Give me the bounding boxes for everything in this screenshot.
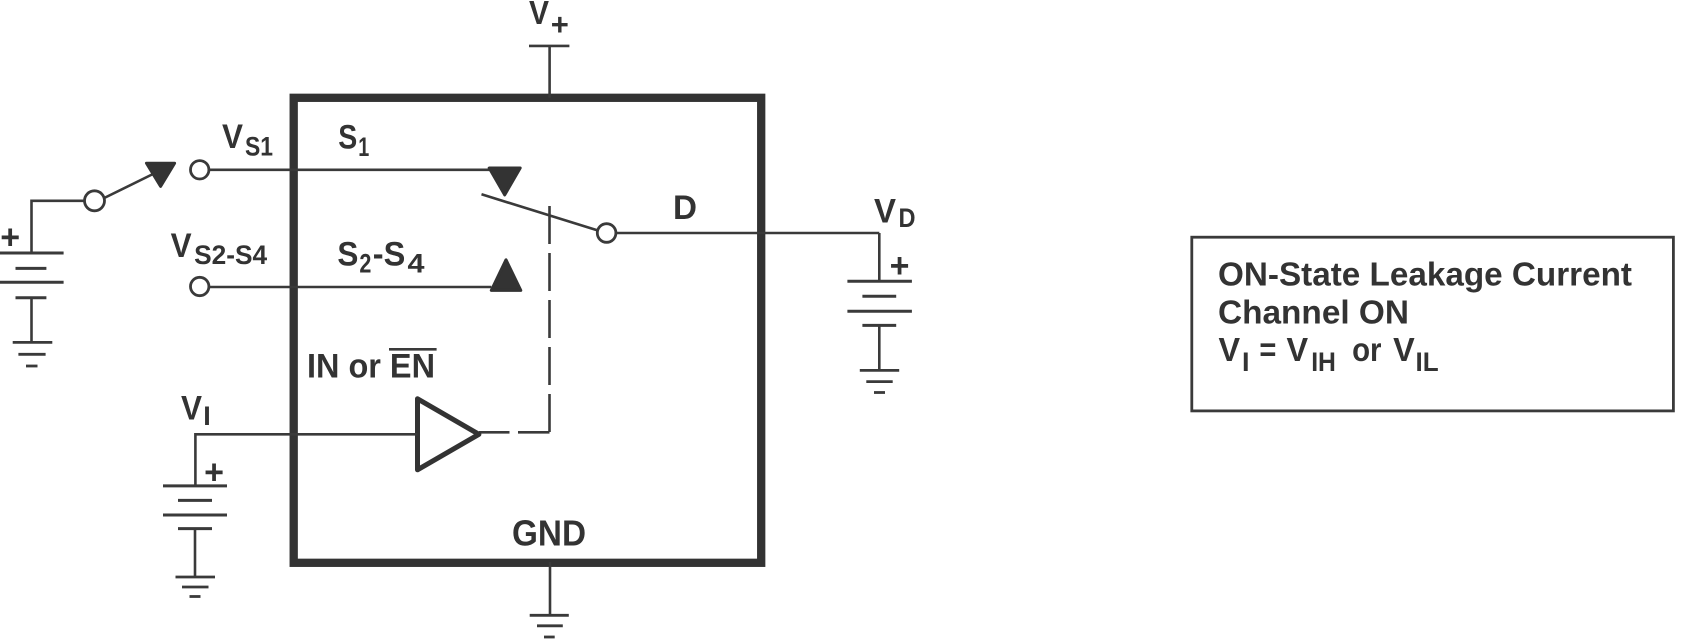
svg-text:S2-S4: S2-S4 [194, 240, 267, 270]
svg-text:V: V [1287, 331, 1309, 368]
label D [673, 189, 697, 227]
label VI [181, 389, 211, 431]
driver buffer [418, 399, 479, 470]
svg-text:GND: GND [512, 513, 586, 554]
ground GND [530, 615, 569, 637]
svg-text:+: + [551, 7, 569, 42]
wire GND to ground [549, 562, 552, 615]
svg-text:or: or [1352, 331, 1382, 368]
label IN or EN [307, 348, 437, 386]
source switch arrowhead [147, 163, 175, 186]
dashed control line horizontal [479, 431, 550, 434]
switch pole circle D [597, 224, 616, 243]
svg-text:V: V [181, 389, 202, 427]
terminal circle VS1 [191, 161, 209, 179]
source switch blade [104, 175, 152, 199]
svg-text:-S: -S [373, 236, 406, 274]
label GND [512, 513, 586, 554]
battery source [0, 253, 64, 298]
label + of source battery [0, 219, 20, 257]
node V+ terminal bar [529, 45, 569, 48]
svg-text:D: D [899, 203, 916, 233]
svg-text:V: V [222, 118, 243, 156]
EN overline [389, 348, 437, 351]
wire battery to switch [32, 201, 85, 253]
svg-text:S1: S1 [245, 131, 273, 161]
arrow S1 (down triangle) [489, 168, 520, 195]
label V+ [529, 0, 569, 42]
svg-text:Channel ON: Channel ON [1218, 294, 1409, 331]
wire VI to buffer [195, 434, 417, 486]
source switch circle (left) [85, 191, 105, 211]
ground VI [176, 577, 216, 597]
svg-text:S: S [337, 236, 358, 274]
terminal circle VS2-S4 [191, 277, 209, 295]
svg-text:IL: IL [1416, 347, 1439, 377]
svg-text:=: = [1259, 331, 1276, 368]
note text line 1 [1218, 255, 1632, 292]
note text line 2 [1218, 294, 1409, 331]
wire VI battery to ground [194, 529, 197, 577]
battery VD [847, 281, 912, 325]
label S2-S4 [337, 236, 424, 279]
ground source battery [13, 342, 53, 366]
svg-text:V: V [1219, 331, 1241, 368]
label VS1 [222, 118, 273, 161]
svg-text:IN or EN: IN or EN [307, 348, 435, 386]
svg-text:V: V [874, 193, 896, 231]
wire S2-S4 [209, 286, 491, 289]
svg-text:D: D [673, 189, 697, 227]
wire source battery to ground [30, 298, 33, 343]
svg-text:IH: IH [1311, 347, 1336, 377]
wire D to VD [616, 232, 879, 235]
label S1 [338, 119, 369, 163]
svg-text:V: V [529, 0, 549, 31]
svg-text:2: 2 [359, 249, 371, 279]
label + of VD battery [890, 247, 910, 285]
dashed control line vertical [548, 206, 551, 432]
svg-text:+: + [0, 219, 20, 257]
label + of VI battery [204, 453, 224, 491]
svg-text:I: I [203, 401, 211, 431]
svg-text:V: V [1393, 331, 1415, 368]
battery VI [163, 486, 227, 529]
ground VD [860, 370, 899, 392]
note box [1192, 237, 1674, 411]
svg-text:1: 1 [358, 132, 369, 162]
device box outline U1 [294, 98, 762, 563]
svg-text:V: V [171, 227, 192, 265]
svg-text:+: + [890, 247, 910, 285]
wire V+ to box top [548, 46, 551, 98]
arrow S2-S4 (up triangle) [491, 260, 521, 291]
wire VD battery to ground [878, 325, 881, 370]
switch blade S1-D [482, 194, 598, 230]
label VS2-S4 [171, 227, 268, 270]
label VD [874, 193, 916, 234]
svg-text:ON-State Leakage Current: ON-State Leakage Current [1218, 255, 1632, 292]
svg-text:4: 4 [408, 249, 425, 279]
note text line 3 [1219, 331, 1439, 377]
wire S1 [209, 169, 491, 172]
svg-text:I: I [1242, 347, 1250, 377]
svg-text:S: S [338, 119, 357, 157]
wire VD down [878, 233, 881, 281]
